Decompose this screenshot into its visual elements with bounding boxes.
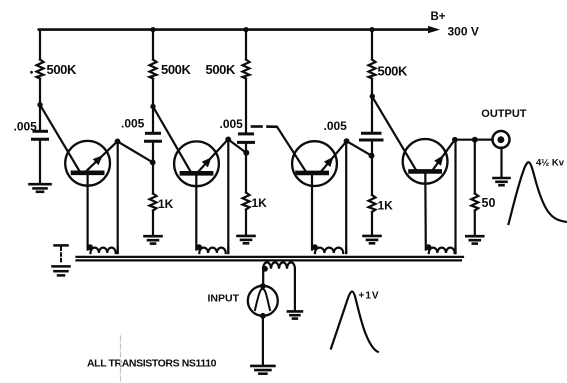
- node rail junction 2: [150, 27, 155, 32]
- svg-text:1K: 1K: [252, 196, 268, 210]
- svg-text:500K: 500K: [47, 62, 77, 77]
- capacitor C1 .005: [34, 130, 47, 133]
- node E4: [452, 137, 458, 143]
- svg-text:INPUT: INPUT: [208, 293, 240, 305]
- output connector: [493, 131, 510, 148]
- waveform output 4.5 Kv: [509, 162, 567, 224]
- node arrow B+: [428, 26, 440, 33]
- resistor R7 1K: [369, 195, 376, 212]
- node E1: [115, 139, 121, 145]
- wire E1 vertical: [117, 141, 119, 253]
- wire input winding right to ground: [294, 269, 296, 311]
- transistor Q3: [292, 141, 347, 250]
- transistor Q1: [65, 141, 117, 250]
- wire rail drop 1: [39, 30, 41, 60]
- resistor R3 500K: [243, 60, 250, 79]
- wire R2 to node J2: [152, 79, 154, 107]
- wire R1 to node J1: [39, 79, 41, 105]
- svg-text:.005: .005: [324, 119, 348, 133]
- wire B+ supply rail: [39, 28, 429, 31]
- resistor R5 1K: [150, 194, 157, 211]
- wire E3 to K4: [347, 141, 372, 156]
- wire C3 to node K3: [245, 144, 247, 153]
- svg-text:ALL TRANSISTORS NS1110: ALL TRANSISTORS NS1110: [87, 358, 217, 370]
- wire base lead Q1: [40, 105, 80, 172]
- wire input winding left to source: [262, 269, 264, 286]
- wire K3 to R6: [245, 153, 247, 192]
- svg-text:500K: 500K: [161, 62, 191, 77]
- node K4: [369, 153, 375, 159]
- capacitor C3 .005: [240, 132, 253, 135]
- ground below R7: [364, 236, 381, 243]
- wire E1 to K2: [118, 141, 153, 162]
- wire C2 to node K2: [152, 143, 154, 163]
- wire E2 to K3: [228, 139, 246, 152]
- wire C4 to node K4: [371, 142, 373, 156]
- wire output connector to ground: [500, 148, 502, 178]
- resistor R4 500K: [369, 60, 376, 79]
- svg-text:50: 50: [482, 196, 496, 210]
- ground below R8: [466, 236, 483, 243]
- wire rail drop 4: [371, 30, 373, 60]
- source waveform glyph: [255, 289, 270, 310]
- wire dashed link to Q3 base: [252, 125, 262, 128]
- node K2: [150, 160, 156, 166]
- wire R4 to node J4: [371, 79, 373, 97]
- wire R7 to ground: [371, 212, 373, 235]
- node source bottom: [260, 313, 266, 319]
- wire base lead Q4: [372, 96, 416, 170]
- node J4: [370, 94, 375, 99]
- node source top: [260, 283, 266, 289]
- resistor R2 500K: [150, 60, 157, 79]
- wire E3 vertical: [345, 141, 347, 253]
- ground below R6: [238, 236, 255, 243]
- waveform input +1V: [331, 292, 378, 352]
- wire K2 to R5: [152, 163, 154, 194]
- ground below C1: [30, 184, 51, 192]
- source generator circle: [248, 286, 278, 316]
- transistor Q4: [403, 139, 455, 250]
- wire base lead Q3: [278, 128, 306, 172]
- node J1: [37, 102, 42, 107]
- wire source to ground: [262, 316, 264, 366]
- wire R5 to ground: [152, 211, 154, 236]
- fold line artifact: [120, 336, 122, 381]
- svg-text:300 V: 300 V: [448, 25, 479, 39]
- core shield dashed ground: [53, 245, 70, 275]
- svg-text:.005: .005: [14, 120, 38, 134]
- capacitor C2 .005: [147, 132, 160, 135]
- transformer T4 winding: [425, 244, 455, 253]
- resistor R8 50: [471, 194, 478, 211]
- svg-text:1K: 1K: [158, 197, 174, 211]
- ground input right: [288, 311, 302, 318]
- wire R6 to ground: [245, 210, 247, 236]
- svg-text:1K: 1K: [378, 199, 394, 213]
- svg-text:.005: .005: [220, 117, 244, 131]
- node K3: [243, 150, 249, 156]
- ground below R5: [145, 236, 162, 243]
- node output tap 50: [472, 137, 478, 143]
- wire E2 vertical: [227, 139, 229, 253]
- wire J1 to C1: [39, 105, 41, 130]
- wire E4 vertical: [454, 140, 456, 253]
- node E3: [344, 138, 350, 144]
- wire E4 to output: [455, 139, 493, 141]
- wire base lead Q2: [153, 107, 191, 172]
- svg-text:500K: 500K: [378, 64, 408, 79]
- wire R3 to C3: [245, 79, 247, 133]
- transformer core lines: [77, 256, 464, 258]
- transformer T2 winding: [196, 244, 228, 253]
- wire tap to R8: [474, 140, 476, 194]
- svg-text:.005: .005: [121, 117, 145, 131]
- transformer T1 winding: [87, 244, 118, 253]
- svg-text:+1V: +1V: [359, 291, 380, 302]
- wire R8 to ground: [474, 211, 476, 236]
- svg-text:500K: 500K: [206, 62, 236, 77]
- wire C1 to ground: [39, 141, 41, 184]
- node J2: [150, 104, 155, 109]
- ground below source: [251, 366, 274, 374]
- svg-text:4½ Kv: 4½ Kv: [536, 158, 565, 169]
- transformer input winding: [262, 262, 295, 271]
- speck left of R1: [30, 71, 33, 74]
- svg-text:B+: B+: [431, 11, 446, 23]
- node E2: [225, 137, 231, 143]
- wire J4 to C4: [371, 96, 373, 132]
- resistor R1 500K: [37, 60, 44, 79]
- wire J2 to C2: [152, 107, 154, 132]
- wire rail drop 2: [152, 30, 154, 60]
- wire K4 to R7: [371, 156, 373, 195]
- svg-text:OUTPUT: OUTPUT: [481, 108, 527, 120]
- transformer T3 winding: [312, 244, 346, 253]
- node rail junction 4: [369, 27, 374, 32]
- transistor Q2: [174, 139, 228, 249]
- ground below output: [494, 178, 510, 185]
- node rail junction 3: [243, 27, 248, 32]
- resistor R6 1K: [243, 193, 250, 210]
- capacitor C4 .005: [363, 132, 381, 135]
- wire rail drop 3: [245, 30, 247, 60]
